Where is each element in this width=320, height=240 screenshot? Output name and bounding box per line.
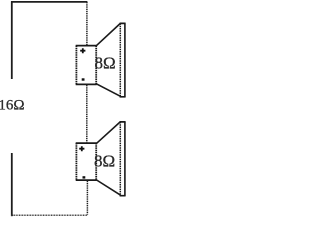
LS2 plus terminal mark	[79, 146, 84, 151]
LS1 minus terminal mark	[82, 78, 85, 80]
svg-text:8Ω: 8Ω	[94, 151, 115, 170]
speaker LS2 driver body	[76, 143, 97, 180]
wire: left vertical lower segment (source - terminal)	[11, 153, 13, 216]
wire: left vertical upper segment (source + terminal)	[11, 1, 13, 79]
speaker LS2 cone	[97, 122, 126, 196]
svg-text:8Ω: 8Ω	[95, 53, 116, 72]
LS2 minus terminal mark	[83, 176, 86, 178]
speaker LS1 cone	[97, 23, 126, 96]
wire: dashed lead from top wire down to speaker LS1 + terminal	[86, 2, 88, 45]
svg-text:16Ω: 16Ω	[0, 97, 24, 113]
wire: dashed lead from LS2 - terminal down to bottom return wire	[86, 181, 88, 215]
wire: top horizontal from source to speaker lead	[11, 1, 87, 3]
speaker LS1 driver body	[76, 46, 97, 85]
LS1 plus terminal mark	[80, 48, 85, 53]
wire: dashed lead from LS1 - terminal to LS2 + terminal	[86, 85, 88, 143]
wire: bottom horizontal return wire (dashed)	[11, 214, 88, 216]
